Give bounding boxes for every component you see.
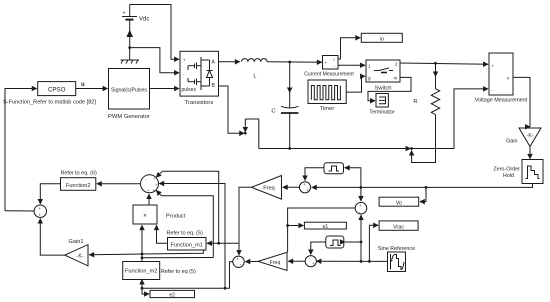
svg-text:Current Measurement: Current Measurement [304,71,354,77]
svg-text:CPSO: CPSO [48,87,66,94]
current measurement CM1 [304,56,354,78]
svg-text:1: 1 [368,64,371,69]
svg-text:-K-: -K- [527,133,534,139]
wire sine line to sample2 [345,241,361,243]
wire B to bottom node [219,86,245,133]
node ZOH line branch [360,186,363,189]
wire branch to big sum lower line [142,257,213,259]
svg-text:g: g [368,76,371,81]
node vrac branch [368,260,371,263]
svg-text:Refer to eq. (5): Refer to eq. (5) [167,231,203,237]
node e1 branch [286,224,289,227]
goto e1 [304,222,346,230]
wire PWM to Transistors pulses [150,88,180,90]
node error at function_m2 [141,287,144,290]
timer [308,80,346,112]
svg-text:+: + [123,11,126,17]
svg-text:io: io [380,37,384,43]
svg-text:m: m [394,75,398,80]
voltage measurement VM [475,53,528,104]
wire branch down to sum Verr top [360,187,362,201]
wire sine reference output left [316,260,387,262]
sum2 [305,256,316,267]
wire node top to bottom rail [245,119,258,149]
wire Freq1 down to sum3 top [239,187,252,255]
wire feedback into CPSO [5,89,37,211]
wire sum Verr output to e1 and Freq2 edge [288,208,356,252]
zero-order hold [493,160,543,184]
inductor L [242,59,268,80]
gain Freq2 [258,252,287,270]
sum1 [299,182,310,193]
svg-text:PWM Generator: PWM Generator [108,114,150,120]
wire resistor bottom hook into rail node [412,115,436,163]
svg-text:Gain: Gain [506,138,517,144]
node 258 branch [141,256,144,259]
svg-text:Refer to eq. (6): Refer to eq. (6) [61,171,97,177]
big sum [141,175,159,193]
node rail right [410,147,413,150]
wire A to inductor [219,61,240,63]
wire down to capacitor [289,62,291,93]
wire top-right diagonal into big sum [156,171,162,177]
svg-text:i: i [334,57,335,62]
svg-text:Voltage Measurement: Voltage Measurement [475,98,528,104]
Function_m2 [123,262,196,280]
wire sum1 to Freq1 [283,186,300,188]
svg-text:C: C [271,109,275,115]
svg-text:Freq: Freq [270,260,281,266]
wire sample1 to sum1 top [305,168,324,181]
wire sample2 to sum2 top [311,242,326,255]
wire branch to Function_m1 bottom [142,250,203,254]
svg-text:+: + [325,61,328,66]
wire switch 2 to R node and VM + [400,63,488,64]
capacitor C [271,106,298,148]
goto Vrac [379,221,418,230]
svg-text:Zero-Order: Zero-Order [493,167,520,173]
node sample2 feed [360,241,363,244]
sine reference [378,246,415,272]
svg-text:2: 2 [395,62,398,67]
wire Freq2 to sum3 right [245,260,258,262]
wire from V213 corner [162,196,214,258]
svg-text:Refer to eq (5): Refer to eq (5) [161,269,196,275]
wire into e1 [288,225,304,227]
svg-text:+: + [492,64,495,69]
svg-text:Product: Product [166,213,186,219]
wire gain1 output to sum4 bottom [40,219,65,256]
node error to bigsum branch [224,287,227,290]
node capacitor top [288,61,291,64]
Function_m1 [167,231,207,250]
svg-text:Vrac: Vrac [393,224,404,230]
svg-text:S-Function_Refer to matlab cod: S-Function_Refer to matlab code [82] [3,99,96,105]
terminator [369,94,395,116]
wire function_m2 up to product left input [141,225,143,261]
gain (down) [506,128,541,147]
svg-text:e1: e1 [323,224,329,230]
wire rail to VM minus [412,89,488,149]
node load bottom [244,132,247,135]
wire gain1 input line [89,253,142,256]
svg-text:Function_m2: Function_m2 [125,269,157,275]
svg-text:Function2: Function2 [66,183,91,189]
svg-text:-K-: -K- [77,253,84,259]
wire from V218 corner [162,171,218,243]
wire into Function_m1 [207,242,239,244]
S-Function CPSO [3,82,96,106]
wire sum3 output down-left [142,262,233,288]
gain1 [65,239,88,266]
switch [366,60,400,92]
svg-text:Freq: Freq [263,186,275,192]
node function_m1 line [217,242,220,245]
scope io [361,33,402,42]
sum3 error [233,256,244,267]
svg-text:pulses: pulses [182,87,197,93]
Function2 [61,171,97,191]
svg-text:Transistors: Transistors [185,100,214,106]
wire Function2 to sum4 top [40,184,60,204]
ground [121,48,140,64]
wire CM - to switch 1 [338,64,365,66]
gain Freq1 [252,176,282,200]
wire error up into Function_m2 bottom [141,280,143,289]
DC source Vdc [122,5,149,24]
svg-text:.: . [145,177,146,182]
wire CM i to io [338,38,360,59]
wire to Vrac [369,225,378,261]
sample hold block 1 [324,163,344,174]
wire Vdc top to Transistors + [130,5,179,60]
wire timer to switch g [346,76,365,92]
svg-text:Hold: Hold [503,173,514,179]
svg-text:Signal(s)Pulses: Signal(s)Pulses [111,87,147,93]
svg-text:Timer: Timer [320,106,335,112]
wire to Vo [420,187,426,201]
sum4 [34,205,46,218]
node gain1 feed [141,253,144,256]
junction ground node [128,46,131,49]
wire CPSO to PWM Generator, signal u [76,88,108,90]
goto e2 [150,290,195,298]
svg-text:Vo: Vo [396,200,402,206]
bottom rail wire [259,148,411,150]
wire gain to ZOH [529,147,531,159]
svg-text:Vdc: Vdc [139,17,149,23]
wire error up to big sum middle input [159,184,225,289]
svg-text:Gain1: Gain1 [69,239,84,245]
svg-text:×: × [143,212,147,219]
svg-text:e2: e2 [169,292,175,298]
wire big sum output to Function2 [97,183,141,185]
transistors block U1 [180,51,219,106]
svg-text:Terminator: Terminator [369,109,395,115]
node sine line 1 [360,260,363,263]
svg-text:Function_m1: Function_m1 [171,243,203,249]
mosfet icons inside [200,57,202,90]
resistor R [413,63,439,114]
node R top [434,62,437,65]
wire junction to Transistors - [130,48,179,73]
product [133,205,186,224]
node vo branch [425,186,428,189]
wire Vdc bottom to ground junction [129,24,131,48]
node capacitor bottom on rail [288,147,291,150]
wire sum2 to Freq2 [288,260,305,262]
wire error down into e2 [142,288,149,294]
wire lower-right diagonal into big sum [156,191,161,196]
wire VM v to Gain [513,77,530,126]
svg-text:u: u [81,82,85,88]
svg-text:R: R [413,99,417,105]
wire function_m1 to product right input [157,225,168,243]
PWM Generator [108,69,150,120]
wire product to big sum [148,194,150,205]
wire sine vertical to sum Verr bottom [360,215,362,261]
svg-text:+: + [183,58,186,63]
sum Verr (top) [355,202,367,214]
wire branch up to sample block 1 [345,168,361,188]
wire L to Current Measurement [267,61,322,64]
wire stub with down arrow into node [244,119,246,132]
goto Vo [379,197,419,206]
svg-text:Sine Reference: Sine Reference [378,246,415,252]
wire sum4 output left to feedback [5,210,34,212]
wire ZOH output long feedback line [312,184,533,188]
sample hold block 2 [326,236,344,248]
svg-text:Switch: Switch [374,86,391,92]
wire switch m to terminator [368,77,411,100]
